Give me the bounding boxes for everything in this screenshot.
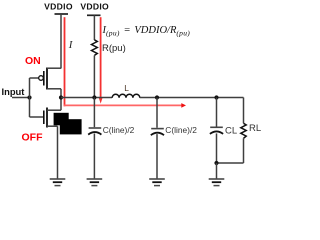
transistor Q1 PMOS gate bubble — [39, 76, 44, 81]
annotation black blob over NMOS — [54, 113, 82, 135]
svg-text:RL: RL — [249, 123, 261, 134]
wire rail to ground G4 — [216, 163, 218, 179]
transistor Q2 NMOS drain lead — [47, 109, 61, 111]
current arrow I (red, through PMOS) — [64, 17, 66, 106]
svg-text:C(line)/2: C(line)/2 — [103, 125, 135, 135]
svg-text:OFF: OFF — [22, 132, 44, 144]
node input gate junction — [27, 95, 31, 99]
capacitor C(line)/2 second — [151, 129, 164, 136]
node output junction — [59, 95, 63, 99]
current label I — [68, 39, 74, 51]
transistor Q2 NMOS source lead — [47, 125, 58, 127]
svg-text:I(pu) = VDDIO/R(pu): I(pu) = VDDIO/R(pu) — [102, 25, 191, 37]
red current flow arrow (horizontal) — [64, 103, 186, 108]
node CL junction top — [214, 95, 218, 99]
wire bottom rail CL-RL — [217, 162, 244, 164]
formula label I(pu) = VDDIO/R(pu) — [102, 25, 191, 37]
value label RL — [249, 123, 261, 134]
transistor Q2 NMOS gate bar — [43, 111, 45, 125]
wire node to C(line)/2 first — [93, 98, 95, 128]
wire RL down to bottom rail — [243, 138, 245, 163]
svg-text:I: I — [68, 39, 74, 51]
wire input lead — [12, 97, 30, 99]
wire to NMOS gate — [30, 116, 44, 118]
node R(pu)/C(line) junction — [92, 95, 96, 99]
transistor Q1 PMOS drain lead — [47, 88, 61, 90]
transistor Q1 PMOS channel bar — [46, 68, 48, 90]
wire main output line (left of L) — [61, 97, 112, 99]
wire VDDIO right down to R(pu) — [93, 15, 95, 40]
ground G3 (C(line)/2 second) — [149, 179, 165, 186]
transistor Q2 NMOS channel bar — [46, 108, 48, 128]
svg-text:VDDIO: VDDIO — [44, 2, 73, 12]
ground G4 (load) — [209, 179, 225, 186]
value label R(pu) — [102, 43, 126, 54]
wire CL to bottom rail — [216, 133, 218, 163]
svg-text:C(line)/2: C(line)/2 — [165, 125, 197, 135]
wire PMOS drain to output node — [60, 89, 62, 110]
wire NMOS source to ground — [57, 126, 59, 178]
capacitor CL — [210, 127, 223, 134]
state label ON (red) — [25, 55, 41, 67]
wire main output line (right of L) — [140, 97, 244, 99]
ground G1 (NMOS source) — [50, 179, 66, 186]
wire main line corner down to RL — [243, 98, 245, 124]
svg-text:Input: Input — [2, 86, 25, 97]
current arrow I(pu) (red, through R(pu)) — [99, 17, 103, 103]
resistor RL — [241, 123, 246, 138]
power label VDDIO (left) — [44, 2, 73, 12]
svg-text:L: L — [124, 83, 129, 93]
wire R(pu) down to output node — [93, 55, 95, 97]
ground G2 (C(line)/2 first) — [87, 179, 103, 186]
svg-text:ON: ON — [25, 55, 41, 67]
resistor R(pu) — [92, 40, 98, 56]
wire C(line)/2 first to ground — [93, 134, 95, 179]
transistor Q1 PMOS gate bar — [43, 71, 45, 86]
inductor L — [112, 94, 140, 98]
svg-text:VDDIO: VDDIO — [80, 2, 109, 12]
transistor Q1 PMOS source lead — [47, 67, 61, 69]
wire node to CL — [216, 98, 218, 127]
value label L — [124, 83, 129, 93]
value label C(line)/2 first — [103, 125, 135, 135]
power terminal bar VDDIO left — [55, 13, 69, 15]
power terminal bar VDDIO right — [87, 14, 101, 16]
node second C(line)/2 junction — [155, 95, 159, 99]
value label CL — [225, 126, 237, 137]
wire C(line)/2 second to ground — [156, 134, 158, 179]
wire gate bus vertical — [29, 78, 31, 117]
node bottom rail junction — [214, 161, 218, 165]
svg-text:CL: CL — [225, 126, 237, 137]
capacitor C(line)/2 first — [88, 128, 101, 135]
wire VDDIO left down to PMOS source — [60, 14, 62, 69]
input label — [2, 86, 25, 97]
wire node to C(line)/2 second — [156, 98, 158, 128]
wire to PMOS gate — [30, 77, 39, 79]
power label VDDIO (right) — [80, 2, 109, 12]
state label OFF (red) — [22, 132, 44, 144]
value label C(line)/2 second — [165, 125, 197, 135]
svg-text:R(pu): R(pu) — [102, 43, 126, 54]
